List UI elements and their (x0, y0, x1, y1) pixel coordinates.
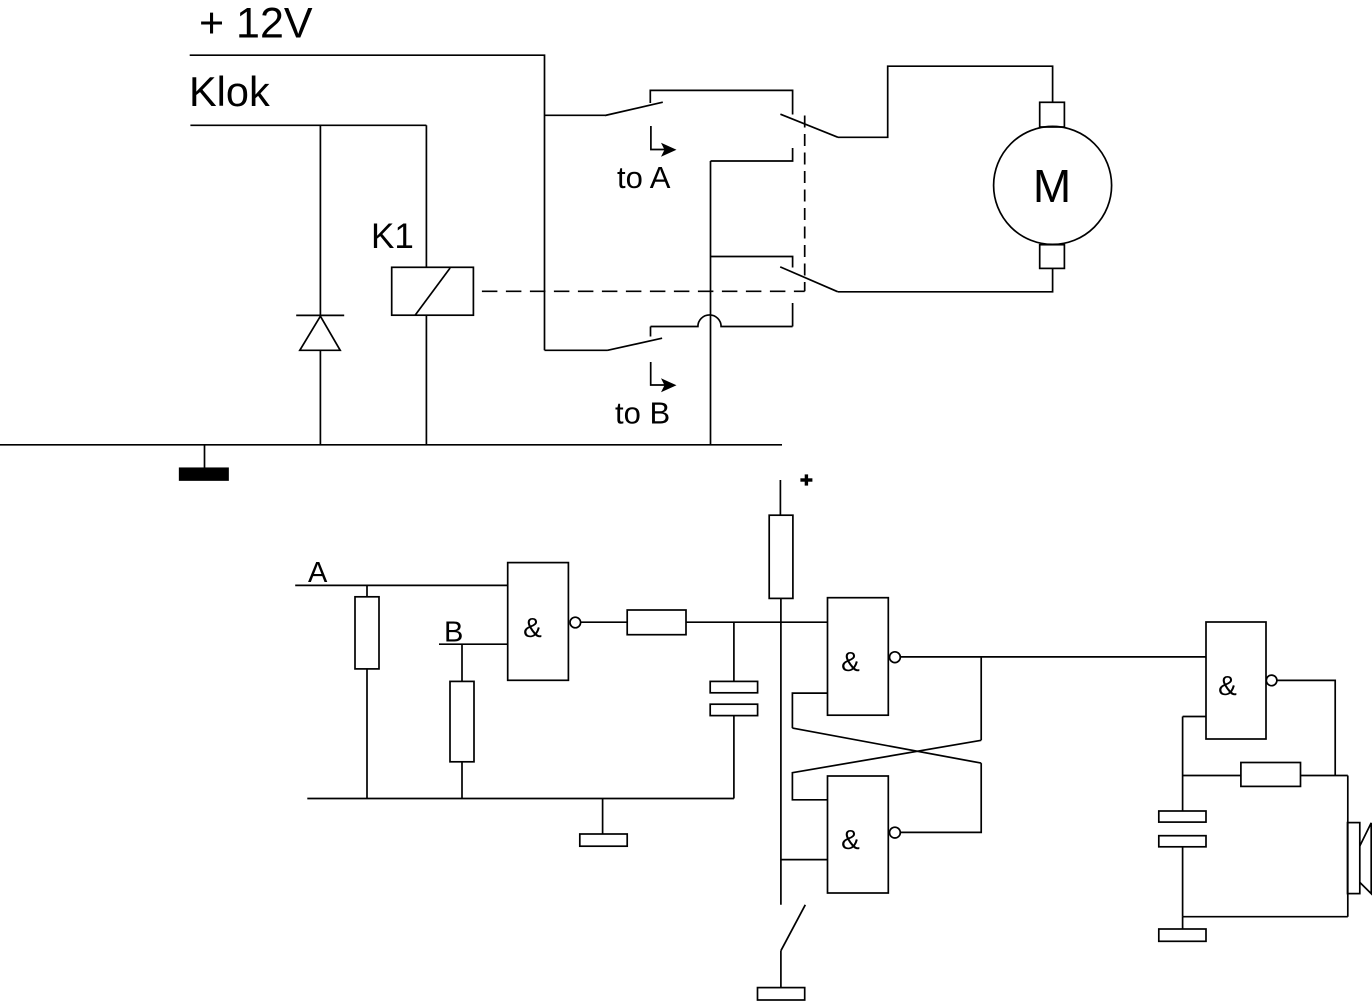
wire U2 output down (980, 657, 982, 740)
svg-text:A: A (308, 557, 328, 589)
resistor R1 (366, 585, 368, 596)
ground symbol right (1182, 917, 1184, 929)
wire U3 output (900, 763, 981, 832)
wire input A (295, 584, 508, 586)
switch S1 lower pole (to B) (545, 349, 608, 351)
contact bracket A lower (711, 148, 793, 161)
diode D1 (296, 314, 344, 316)
wire relay coil to ground (425, 315, 427, 445)
wire dashed mechanical link horizontal (473, 290, 804, 292)
wire dashed mechanical link vertical (804, 116, 806, 292)
ground symbol lower left (602, 799, 604, 835)
resistor R5 (1241, 763, 1301, 787)
wire contact common vertical (710, 161, 712, 445)
bottom rail right circuit (1183, 916, 1348, 918)
wire diode to ground (319, 350, 321, 445)
supply + label (800, 474, 812, 485)
wire + to R4 (779, 480, 781, 515)
resistor R3 (627, 610, 686, 635)
wire relay coil top (425, 125, 427, 267)
wire R4 down to switch (780, 598, 782, 904)
wire U2 lower input (792, 693, 827, 728)
motor M terminal bottom (1040, 245, 1065, 269)
wire motor bottom to pole B (838, 268, 1053, 291)
wire cross U3out to U2 input (792, 728, 981, 763)
wire Klok (190, 124, 426, 126)
wire cross U2out to U3 input (792, 740, 981, 800)
speaker LS1 (1348, 823, 1360, 894)
resistor R2 (461, 644, 463, 681)
relay K1 coil (392, 267, 474, 315)
wire U2 output to U4 (900, 656, 1206, 658)
svg-text:Klok: Klok (189, 68, 270, 115)
svg-text:M: M (1033, 160, 1071, 212)
ground rail lower circuit (307, 798, 734, 800)
arrow to B (651, 362, 666, 385)
wire +12V rail (190, 55, 545, 350)
ground symbol top (204, 445, 206, 469)
nand gate U3 (828, 776, 889, 893)
svg-text:&: & (1218, 670, 1237, 701)
svg-text:K1: K1 (371, 217, 414, 256)
ground symbol switch (758, 988, 805, 1000)
motor M terminal top (1040, 102, 1065, 127)
arrow to A (651, 126, 666, 150)
contact bracket B lower with hop (651, 315, 793, 327)
wire U4 output (1277, 680, 1335, 775)
ground rail top circuit (0, 444, 782, 446)
resistor R4 pullup (769, 515, 793, 598)
switch S2 (781, 905, 805, 951)
nand gate U2 (828, 598, 889, 716)
contact bracket B upper (711, 257, 793, 268)
capacitor C2 (1182, 717, 1184, 812)
wire diode branch top (319, 125, 321, 315)
switch S1 upper pole (to A) (545, 114, 606, 116)
contact bracket A (650, 90, 792, 114)
svg-text:&: & (523, 612, 542, 643)
wire R5 right (1301, 775, 1348, 777)
svg-text:&: & (841, 824, 860, 855)
wire R3 to U2 input (686, 621, 828, 623)
wire U3 lower input (781, 859, 828, 861)
nand gate U1 (508, 563, 569, 681)
svg-text:to A: to A (617, 160, 671, 195)
svg-text:&: & (841, 646, 860, 677)
svg-text:+ 12V: + 12V (199, 0, 313, 48)
svg-text:to B: to B (615, 396, 670, 431)
switch pole A output blade (780, 114, 838, 137)
nand gate U4 (1206, 622, 1266, 739)
wire input B (439, 643, 508, 645)
capacitor C1 (733, 622, 735, 681)
wire right vertical to rail (1347, 776, 1349, 917)
wire R5 left (1183, 775, 1241, 777)
switch pole B output blade (780, 267, 838, 292)
wire pole A to motor top (838, 66, 1053, 137)
wire U4 lower input (1183, 716, 1206, 718)
wire U1 output (581, 621, 628, 623)
motor M (994, 126, 1112, 244)
